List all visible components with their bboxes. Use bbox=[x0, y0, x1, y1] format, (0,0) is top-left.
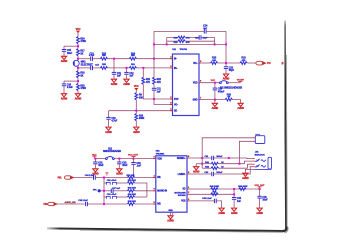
wire bbox=[94, 159, 96, 162]
wire bbox=[95, 177, 127, 179]
connector P32 bbox=[43, 202, 56, 206]
svg-text:R33 10K: R33 10K bbox=[128, 180, 137, 182]
resistor R14 10K bbox=[129, 53, 136, 61]
wire bbox=[64, 80, 78, 82]
ground bbox=[242, 173, 249, 180]
wire bbox=[63, 46, 65, 49]
shadow fade masks bbox=[43, 226, 60, 234]
jumper S11 SMD2X1HEADER bbox=[220, 81, 243, 90]
wire bbox=[135, 203, 156, 205]
junction bbox=[233, 188, 235, 190]
svg-text:VCC: VCC bbox=[211, 80, 216, 82]
power flag VCC5V bbox=[237, 80, 245, 83]
svg-text:TPA731: TPA731 bbox=[180, 48, 188, 51]
svg-text:47K: 47K bbox=[186, 41, 190, 44]
wire GND row bbox=[202, 99, 225, 101]
junction bbox=[77, 80, 79, 82]
resistor R34 10K bbox=[127, 193, 136, 198]
resistor R9 10K bbox=[135, 93, 143, 100]
junction bbox=[103, 190, 105, 192]
capacitor C44 1uF bbox=[232, 197, 242, 208]
resistor R18 470R bbox=[77, 83, 87, 90]
wire bbox=[116, 182, 127, 184]
svg-text:VDD: VDD bbox=[193, 83, 198, 85]
capacitor C14 .1uF bbox=[91, 63, 100, 70]
ground bbox=[61, 94, 68, 101]
capacitor C12 1uF bbox=[124, 72, 134, 79]
jumper S12 SMD2X1HEADER bbox=[103, 148, 121, 159]
power flag VCC (mic bias) bbox=[76, 28, 81, 37]
capacitor C10 4.7uF bbox=[106, 117, 118, 127]
op-amp U31 TPA4861 bbox=[156, 151, 187, 213]
wire VDD row bbox=[202, 82, 220, 84]
wire bbox=[135, 121, 137, 127]
svg-text:470R: 470R bbox=[80, 87, 86, 90]
wire VDD rail bbox=[114, 158, 156, 160]
ground bbox=[111, 79, 118, 86]
resistor R44 100K bbox=[238, 185, 248, 190]
wire bbox=[135, 196, 147, 198]
wire bbox=[77, 56, 79, 61]
pin 4 bbox=[153, 174, 156, 177]
junction bbox=[233, 193, 235, 195]
svg-text:C35 .47uF: C35 .47uF bbox=[107, 179, 117, 182]
capacitor C22 33pF bbox=[224, 66, 235, 73]
svg-text:C34 2.2uF: C34 2.2uF bbox=[85, 174, 95, 177]
wire feedback outer right bbox=[225, 31, 227, 63]
ground bbox=[105, 127, 112, 134]
connector J31 EARJACK bbox=[252, 151, 271, 169]
wire bbox=[135, 177, 156, 179]
wire bbox=[143, 84, 172, 99]
resistor R15 10K bbox=[100, 64, 107, 69]
svg-text:4.7uF: 4.7uF bbox=[111, 120, 117, 123]
resistor R41 16R bbox=[205, 161, 224, 165]
wire fb col B bbox=[153, 59, 155, 77]
ground bbox=[223, 74, 230, 81]
svg-text:VCC: VCC bbox=[134, 85, 139, 88]
svg-text:33pF: 33pF bbox=[229, 69, 235, 72]
ground bbox=[123, 79, 130, 86]
pin 5 bbox=[199, 61, 202, 63]
svg-text:GND: GND bbox=[193, 100, 198, 102]
wire feedback outer left bbox=[153, 31, 155, 58]
wire shutdown row bbox=[190, 188, 260, 190]
svg-text:1uF: 1uF bbox=[237, 200, 242, 203]
capacitor C15 10uF bbox=[62, 49, 73, 56]
svg-text:LO/MO-: LO/MO- bbox=[178, 174, 186, 176]
svg-text:R34 10K: R34 10K bbox=[128, 193, 137, 196]
wire bbox=[232, 100, 240, 103]
wire to box pin2 bbox=[239, 141, 253, 163]
pin 5b bbox=[187, 172, 190, 174]
capacitor C31 10uF bbox=[93, 161, 104, 168]
pin 3 bbox=[170, 66, 173, 68]
wire fb col A bbox=[142, 68, 144, 77]
resistor R33 10K bbox=[127, 180, 136, 184]
svg-text:ELECTRET: ELECTRET bbox=[81, 63, 94, 66]
pin 5 bbox=[153, 202, 156, 204]
wire bbox=[93, 67, 101, 69]
wire branch1 bbox=[167, 37, 215, 39]
wire bypass row bbox=[190, 193, 234, 195]
wire bbox=[108, 58, 130, 60]
pin 7 bbox=[199, 98, 202, 100]
pin 1 bbox=[187, 187, 190, 189]
wire bbox=[214, 90, 216, 103]
wire bbox=[214, 83, 216, 88]
svg-text:C36 .47uF: C36 .47uF bbox=[107, 193, 117, 196]
resistor R28 47K bbox=[174, 40, 190, 44]
ground bbox=[256, 208, 263, 215]
capacitor C35 .047uF bbox=[106, 179, 117, 185]
pin 6 bbox=[199, 81, 202, 83]
pin 7 (gnd) bbox=[171, 212, 175, 216]
svg-text:SMD2X1HEADER: SMD2X1HEADER bbox=[103, 150, 121, 153]
junction bbox=[94, 158, 96, 160]
ground bbox=[61, 56, 68, 63]
ground bbox=[75, 94, 82, 101]
ground bbox=[237, 103, 244, 110]
junction bbox=[153, 98, 155, 100]
resistor R42 16R bbox=[205, 166, 224, 170]
svg-text:AUDIO_IN2: AUDIO_IN2 bbox=[65, 201, 77, 204]
resistor R20 0R bbox=[225, 93, 232, 101]
wire bbox=[135, 100, 137, 114]
junction bbox=[113, 58, 115, 60]
capacitor C21 .47uF bbox=[152, 88, 162, 94]
wire input row E bbox=[57, 203, 85, 205]
resistor R17 1K bbox=[77, 49, 86, 56]
svg-text:1uF: 1uF bbox=[157, 91, 162, 94]
svg-text:.1uF: .1uF bbox=[136, 165, 141, 168]
svg-text:10uF: 10uF bbox=[122, 164, 128, 167]
svg-text:47K: 47K bbox=[146, 81, 150, 84]
svg-text:GND: GND bbox=[168, 210, 173, 212]
svg-text:10R: 10R bbox=[212, 60, 216, 62]
svg-text:1K: 1K bbox=[80, 74, 83, 77]
svg-text:1uF: 1uF bbox=[129, 75, 134, 78]
resistor R32 10K bbox=[127, 188, 136, 193]
wire bbox=[113, 190, 127, 192]
pin 8 bbox=[170, 102, 173, 104]
wire row3 bbox=[202, 167, 211, 169]
svg-text:S11 SMD2X1HEADER: S11 SMD2X1HEADER bbox=[220, 86, 243, 89]
capacitor C36 .047uF bbox=[106, 193, 117, 199]
svg-text:R44 100K: R44 100K bbox=[238, 185, 248, 188]
ground bbox=[167, 216, 174, 223]
junction bbox=[77, 58, 79, 60]
capacitor C33 .1uF bbox=[131, 162, 141, 178]
ground bbox=[193, 167, 200, 174]
ground bbox=[212, 103, 219, 110]
svg-text:10K: 10K bbox=[102, 55, 106, 57]
wire bbox=[154, 90, 173, 104]
resistor R24 470R bbox=[77, 37, 87, 44]
svg-text:R43 100K: R43 100K bbox=[210, 185, 220, 188]
svg-text:RO/MO+: RO/MO+ bbox=[177, 158, 186, 160]
svg-text:4.7uF: 4.7uF bbox=[89, 54, 95, 57]
junction bbox=[142, 67, 144, 69]
junction bbox=[228, 157, 230, 159]
svg-text:C37 1uF: C37 1uF bbox=[112, 188, 121, 190]
wire bbox=[214, 167, 253, 174]
wire bbox=[135, 190, 156, 192]
svg-text:BYP: BYP bbox=[174, 99, 179, 101]
wire bbox=[225, 63, 227, 67]
wire bbox=[77, 66, 79, 71]
page shadow border right bbox=[285, 21, 288, 229]
wire bbox=[218, 62, 240, 64]
pin 6 bbox=[153, 157, 156, 159]
junction bbox=[225, 62, 227, 64]
wire row1 bbox=[78, 58, 91, 60]
svg-text:1uF: 1uF bbox=[117, 75, 122, 78]
wire SD row bbox=[109, 110, 173, 112]
junction bbox=[259, 188, 261, 190]
power flag VCC (rail) bbox=[92, 154, 97, 158]
wire bbox=[247, 62, 257, 64]
wire out row4 bbox=[190, 173, 212, 175]
ground bbox=[116, 169, 123, 176]
wire bbox=[63, 81, 65, 84]
wire bbox=[137, 58, 173, 60]
svg-text:R31 10K: R31 10K bbox=[126, 175, 135, 177]
wire bbox=[87, 203, 127, 205]
svg-text:47K: 47K bbox=[186, 36, 190, 39]
wire bbox=[153, 84, 155, 88]
svg-text:1K: 1K bbox=[80, 52, 83, 55]
pin 3 bbox=[187, 199, 190, 201]
wire row2 bbox=[196, 163, 211, 165]
wire feedback inner bottom bbox=[154, 43, 226, 45]
svg-text:VO+: VO+ bbox=[193, 63, 198, 65]
resistor R25 10R bbox=[210, 57, 217, 65]
wire bbox=[137, 67, 173, 69]
resistor R45 10K bbox=[211, 191, 218, 196]
wire input row A bbox=[73, 177, 93, 179]
wire out row1 bbox=[190, 157, 212, 159]
wire bbox=[216, 201, 221, 208]
wire cap tap bbox=[126, 68, 128, 73]
wire branch2 bbox=[167, 40, 215, 42]
wire bbox=[214, 157, 253, 160]
pin 1 bbox=[170, 109, 173, 111]
capacitor C42 100uF bbox=[204, 171, 223, 176]
resistor R11 10K bbox=[129, 64, 136, 69]
pin 2 bbox=[170, 97, 173, 99]
resistor R43 100K bbox=[210, 185, 220, 190]
capacitor C43 2.2uF bbox=[202, 197, 216, 203]
wire cap tap bbox=[113, 59, 115, 73]
capacitor C38 2.2uF bbox=[78, 200, 88, 206]
node TP31 bbox=[93, 189, 101, 192]
svg-text:BYPASS: BYPASS bbox=[178, 194, 186, 197]
junction bbox=[214, 99, 216, 101]
wire VDD rail bbox=[94, 158, 105, 160]
svg-text:C38 2.2uF: C38 2.2uF bbox=[78, 200, 88, 202]
resistor R16 1K bbox=[77, 71, 86, 78]
page shadow border bottom bbox=[47, 227, 288, 233]
svg-text:470uF: 470uF bbox=[218, 90, 225, 93]
power flag VCC (SD pullup) bbox=[134, 85, 139, 92]
wire bbox=[77, 91, 79, 94]
capacitor C32 10uF bbox=[117, 161, 128, 168]
resistor R23 47R bbox=[240, 57, 247, 65]
svg-text:100K: 100K bbox=[139, 117, 145, 120]
ground bbox=[218, 208, 225, 215]
wire bbox=[135, 183, 147, 197]
svg-text:EARJACK: EARJACK bbox=[255, 153, 266, 156]
wire feedback branch right bbox=[214, 38, 216, 45]
svg-text:C43 2.2uF: C43 2.2uF bbox=[202, 197, 212, 200]
svg-text:2.2uF: 2.2uF bbox=[67, 86, 73, 89]
svg-text:VO-: VO- bbox=[174, 104, 178, 106]
wire bbox=[108, 67, 130, 69]
wire feedback top bbox=[154, 30, 204, 32]
capacitor C16 2.2uF bbox=[62, 83, 74, 93]
wire row C bbox=[101, 190, 112, 192]
junction bbox=[166, 43, 168, 45]
junction bbox=[118, 158, 120, 160]
svg-text:R32 10K: R32 10K bbox=[128, 188, 137, 190]
resistor R22 47K bbox=[153, 77, 162, 84]
svg-text:47pF: 47pF bbox=[203, 36, 209, 39]
microphone MK1 ELECTRET bbox=[73, 60, 93, 66]
wire bbox=[116, 196, 127, 198]
junction bbox=[153, 58, 155, 60]
junction bbox=[201, 157, 203, 159]
wire input ladder vertical bbox=[103, 178, 105, 205]
wire bbox=[218, 161, 252, 164]
resistor R10 100K bbox=[135, 114, 145, 121]
wire jack ground bbox=[245, 169, 254, 172]
wire bbox=[195, 164, 197, 167]
svg-text:PO: PO bbox=[267, 62, 271, 65]
wire vccout cap bbox=[259, 189, 261, 196]
wire bbox=[206, 30, 226, 32]
capacitor C41 100uF bbox=[204, 155, 223, 160]
power flag VCC_OUT bbox=[254, 185, 265, 189]
pin 2 bbox=[187, 192, 190, 194]
svg-text:10K: 10K bbox=[131, 55, 135, 57]
junction bbox=[103, 177, 105, 179]
connector PO (off-page oval) bbox=[256, 61, 271, 65]
capacitor C24 5pF bbox=[203, 25, 208, 34]
wire row B bbox=[104, 182, 106, 184]
ground bbox=[231, 208, 238, 215]
junction bbox=[77, 67, 79, 69]
svg-text:47K: 47K bbox=[157, 81, 161, 84]
capacitor C11 1uF bbox=[112, 72, 122, 79]
resistor R35 10K bbox=[127, 201, 136, 205]
pin 9 bbox=[153, 189, 156, 191]
wire feedback branch left bbox=[166, 38, 168, 45]
junction bbox=[77, 45, 79, 47]
svg-text:R35 10K: R35 10K bbox=[128, 201, 137, 203]
svg-text:10uF: 10uF bbox=[262, 199, 268, 202]
junction bbox=[225, 43, 227, 45]
junction bbox=[214, 43, 216, 45]
ground bbox=[133, 127, 140, 134]
wire out tap vertical bbox=[201, 158, 203, 168]
power flag (row A) bbox=[105, 173, 108, 176]
wire to box pin1 bbox=[202, 138, 253, 158]
wire bbox=[218, 164, 252, 168]
wire output row bbox=[202, 62, 211, 64]
wire bbox=[93, 58, 101, 60]
wire bbox=[228, 82, 240, 84]
ground bbox=[92, 169, 99, 176]
connector P31 bbox=[58, 176, 74, 180]
wire bbox=[64, 45, 78, 47]
junction bbox=[133, 158, 135, 160]
svg-text:MONO-IN: MONO-IN bbox=[157, 191, 167, 193]
svg-text:VDD: VDD bbox=[157, 158, 162, 160]
junction bbox=[238, 163, 240, 165]
capacitor C23 bbox=[195, 35, 208, 39]
junction bbox=[201, 163, 203, 165]
wire row D bbox=[104, 196, 106, 198]
connector J32 (box) bbox=[253, 134, 265, 143]
junction bbox=[103, 203, 105, 205]
wire bbox=[77, 78, 79, 84]
svg-text:10K: 10K bbox=[139, 96, 143, 99]
svg-text:SD: SD bbox=[174, 111, 177, 113]
pin 4 bbox=[170, 56, 173, 59]
wire row2 bbox=[78, 67, 91, 69]
capacitor C37 1uF bbox=[111, 188, 120, 193]
svg-text:TPA4861: TPA4861 bbox=[156, 153, 165, 156]
svg-text:VCC: VCC bbox=[76, 28, 81, 31]
capacitor C13 4.7uF bbox=[89, 53, 95, 61]
resistor R26 47K bbox=[174, 36, 190, 39]
capacitor C34 2.2uF bbox=[85, 174, 96, 180]
resistor R21 47K bbox=[142, 77, 151, 84]
svg-text:47R: 47R bbox=[242, 59, 246, 62]
svg-text:SD: SD bbox=[182, 189, 185, 191]
svg-text:470R: 470R bbox=[80, 40, 86, 43]
pin 8 bbox=[187, 156, 190, 158]
svg-text:10uF: 10uF bbox=[98, 164, 104, 167]
wire bbox=[108, 111, 110, 118]
wire vo2 row bbox=[190, 200, 215, 202]
wire bbox=[133, 159, 135, 163]
wire bbox=[233, 189, 235, 198]
resistor R13 10K bbox=[100, 53, 107, 61]
wire bbox=[77, 44, 79, 49]
svg-text:IN-: IN- bbox=[174, 59, 177, 61]
power flag VCC_OUT bbox=[128, 155, 139, 159]
svg-text:10uF: 10uF bbox=[67, 52, 73, 55]
junction bbox=[153, 43, 155, 45]
junction bbox=[214, 82, 216, 84]
resistor R31 10K bbox=[126, 175, 135, 179]
junction bbox=[126, 67, 128, 69]
op-amp U11 TPA731 bbox=[172, 48, 199, 116]
wire bbox=[118, 159, 120, 162]
capacitor C45 10uF bbox=[257, 196, 268, 208]
capacitor C19 470uF bbox=[213, 88, 225, 94]
junction bbox=[135, 110, 137, 112]
